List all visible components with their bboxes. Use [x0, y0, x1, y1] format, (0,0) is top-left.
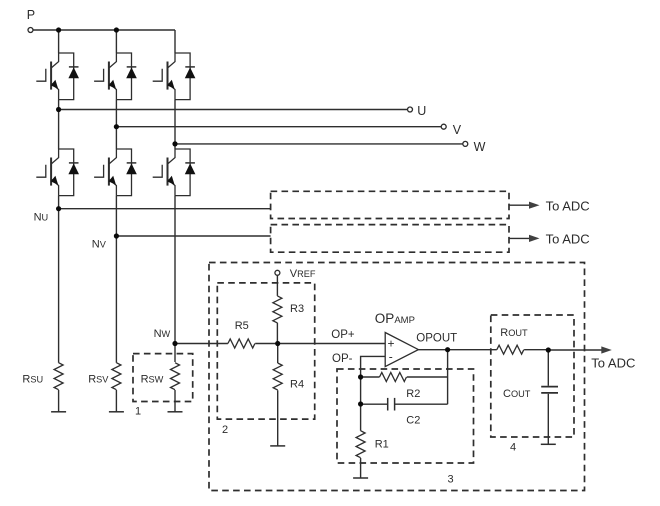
svg-text:3: 3 [448, 474, 454, 486]
svg-text:1: 1 [135, 405, 141, 417]
svg-text:W: W [474, 140, 486, 154]
svg-text:4: 4 [510, 442, 516, 454]
svg-text:OP+: OP+ [331, 329, 355, 341]
svg-text:R4: R4 [290, 379, 304, 391]
svg-text:RSU: RSU [22, 374, 43, 386]
svg-text:R3: R3 [290, 303, 304, 315]
svg-text:OPAMP: OPAMP [375, 311, 415, 326]
svg-text:To ADC: To ADC [546, 199, 590, 214]
svg-text:-: - [389, 350, 393, 364]
svg-text:C2: C2 [406, 414, 420, 426]
svg-text:V: V [453, 123, 462, 137]
svg-text:RSW: RSW [141, 374, 164, 386]
svg-text:NU: NU [34, 212, 49, 224]
svg-text:VREF: VREF [290, 268, 316, 280]
svg-text:R5: R5 [235, 320, 249, 332]
svg-text:NW: NW [154, 328, 171, 340]
svg-text:COUT: COUT [503, 388, 531, 400]
svg-text:+: + [388, 337, 395, 351]
svg-text:RSV: RSV [88, 374, 109, 386]
svg-text:2: 2 [222, 424, 228, 436]
svg-text:To ADC: To ADC [546, 232, 590, 247]
svg-text:P: P [27, 8, 35, 22]
svg-text:R1: R1 [375, 439, 389, 451]
svg-text:OPOUT: OPOUT [416, 333, 457, 345]
svg-text:R2: R2 [406, 388, 420, 400]
svg-text:NV: NV [92, 238, 107, 250]
svg-text:To ADC: To ADC [591, 355, 635, 370]
svg-text:OP-: OP- [332, 353, 353, 365]
svg-text:U: U [417, 104, 426, 118]
svg-text:ROUT: ROUT [500, 327, 528, 339]
